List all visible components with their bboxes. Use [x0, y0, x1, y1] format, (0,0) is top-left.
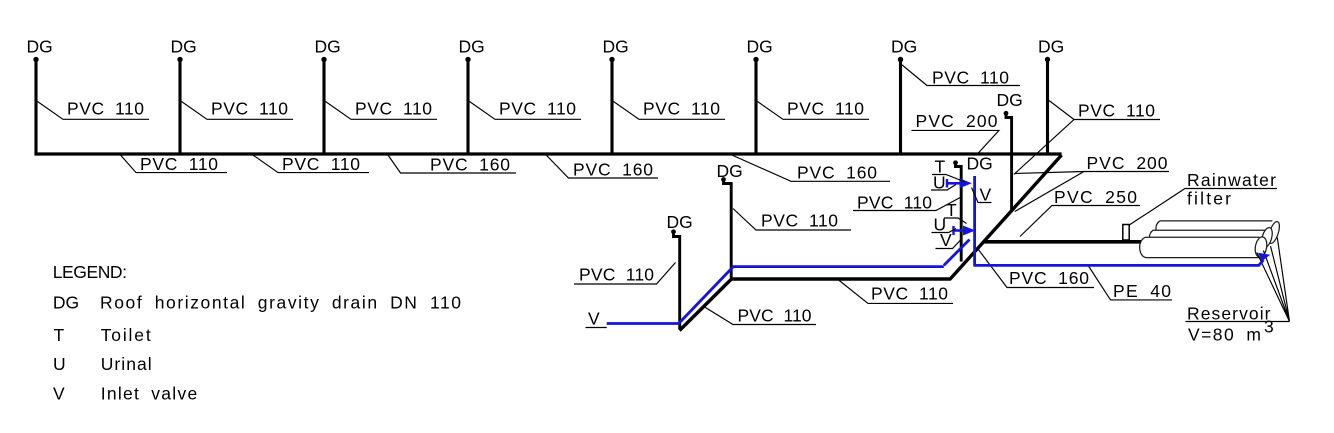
svg-text:Roof horizontal gravity drain: Roof horizontal gravity drain DN 110 — [100, 293, 461, 313]
node DG12 dot — [953, 160, 958, 165]
component reservoir end ellipse back — [1266, 220, 1281, 244]
leader V1 — [972, 188, 992, 203]
leader PVC 110 downpipe 7 — [902, 65, 1021, 86]
svg-text:PVC 110: PVC 110 — [857, 193, 932, 213]
leader PE 40 — [1089, 266, 1173, 300]
svg-text:PVC 110: PVC 110 — [140, 154, 218, 174]
wire main collector PVC pipe (roof level) — [34, 152, 1061, 155]
leader reservoir fan lines — [1186, 238, 1290, 322]
leader main-line segment label 1 — [121, 155, 228, 173]
svg-text:DG: DG — [717, 161, 743, 181]
wire downpipe DG7 — [899, 60, 902, 154]
wire sloped collector and lower branch main — [680, 155, 1062, 331]
leader main-line segment label 5 — [729, 154, 891, 182]
svg-text:PVC 110: PVC 110 — [738, 306, 812, 326]
svg-text:PVC 110: PVC 110 — [499, 99, 576, 119]
leader main-line segment label 4 — [546, 155, 658, 179]
wire downpipe DG12 (toilet/urinal stack) — [956, 163, 962, 262]
leader V inlet underline — [586, 327, 607, 329]
wire downpipe DG5 — [610, 60, 613, 154]
component reservoir end ellipse middle — [1260, 226, 1275, 248]
node DG10 dot — [721, 177, 726, 182]
svg-text:PVC 110: PVC 110 — [643, 99, 720, 119]
svg-text:PVC 250: PVC 250 — [1054, 187, 1137, 207]
svg-text:PVC 160: PVC 160 — [430, 155, 510, 175]
leader PVC 110 downpipe 6 — [758, 102, 870, 120]
svg-text:PVC 110: PVC 110 — [211, 99, 288, 119]
svg-text:filter: filter — [1187, 189, 1231, 209]
svg-text:DG: DG — [891, 37, 917, 57]
svg-text:U: U — [53, 354, 66, 374]
wire downpipe DG8 — [1046, 60, 1049, 154]
svg-text:PVC 110: PVC 110 — [1078, 101, 1155, 121]
svg-text:PVC 160: PVC 160 — [797, 163, 877, 183]
svg-text:PVC 110: PVC 110 — [282, 154, 360, 174]
svg-text:DG: DG — [603, 37, 629, 57]
node DG5 roof drain dot — [609, 57, 614, 62]
component reservoir end ellipse front — [1254, 236, 1269, 258]
svg-text:V: V — [53, 384, 65, 404]
svg-text:T: T — [946, 200, 957, 220]
svg-text:V: V — [980, 185, 992, 205]
svg-text:Toilet: Toilet — [101, 325, 151, 345]
leader PVC 110 downpipe 5 — [614, 102, 726, 120]
svg-text:DG: DG — [315, 37, 341, 57]
leader rainwater filter — [1129, 189, 1278, 226]
svg-text:PVC 110: PVC 110 — [932, 68, 1009, 88]
leader PVC 110 downpipe 1 — [38, 102, 150, 120]
svg-text:Rainwater: Rainwater — [1187, 170, 1276, 190]
node DG3 roof drain dot — [321, 57, 326, 62]
leader PVC 160 lower — [978, 249, 1094, 288]
svg-text:LEGEND:: LEGEND: — [53, 262, 127, 282]
svg-text:PVC 110: PVC 110 — [355, 99, 432, 119]
wire reservoir feed pipe PVC 250 — [984, 240, 1144, 244]
node DG7 roof drain dot — [898, 57, 903, 62]
component rainwater filter — [1123, 225, 1129, 241]
svg-text:PE 40: PE 40 — [1113, 281, 1171, 301]
wire downpipe DG3 — [322, 60, 325, 154]
svg-text:PVC 110: PVC 110 — [579, 265, 654, 285]
leader U1 — [931, 185, 956, 191]
wire downpipe DG1 — [34, 60, 37, 154]
node DG4 roof drain dot — [465, 57, 470, 62]
svg-text:3: 3 — [1264, 317, 1274, 337]
leader PVC 110 downpipe 2 — [182, 102, 294, 120]
wire downpipe DG4 — [466, 60, 469, 154]
leader main-line segment label 2 — [253, 155, 369, 173]
node DG1 roof drain dot — [33, 57, 38, 62]
svg-text:PVC 200: PVC 200 — [1087, 153, 1168, 173]
svg-text:PVC 200: PVC 200 — [916, 111, 998, 131]
svg-text:V: V — [940, 230, 952, 250]
svg-text:PVC 110: PVC 110 — [67, 99, 144, 119]
wire blue inlet from valve V — [607, 267, 944, 324]
svg-text:T: T — [54, 325, 65, 345]
component reservoir cylinder front — [1140, 237, 1260, 257]
leader PVC 200 lower (two arms) — [1015, 172, 1169, 212]
svg-text:DG: DG — [459, 37, 485, 57]
leader main-line segment label 3 — [388, 155, 516, 173]
svg-text:DG: DG — [747, 37, 773, 57]
svg-text:DG: DG — [1038, 37, 1064, 57]
svg-text:Reservoir: Reservoir — [1187, 304, 1271, 324]
component inlet valve arrow 1 — [947, 178, 972, 188]
wire blue stack vertical — [975, 176, 1264, 265]
node DG6 roof drain dot — [753, 57, 758, 62]
leader PVC 110 stack — [853, 197, 962, 211]
leader V2 — [936, 239, 962, 249]
wire blue riser to valve 2 — [944, 240, 970, 266]
svg-text:PVC 160: PVC 160 — [573, 160, 653, 180]
svg-text:PVC 110: PVC 110 — [871, 284, 948, 304]
svg-text:PVC 160: PVC 160 — [1009, 268, 1089, 288]
leader T2 — [944, 218, 967, 224]
wire downpipe DG11 — [674, 232, 680, 330]
leader U2 — [932, 229, 957, 233]
component reservoir cylinder middle — [1149, 230, 1267, 246]
leader PVC 110 downpipe 4 — [470, 102, 582, 120]
leader PVC 110 branch right — [733, 209, 851, 231]
svg-text:DG: DG — [967, 154, 993, 174]
svg-text:DG: DG — [171, 37, 197, 57]
component reservoir cylinder back — [1156, 221, 1272, 237]
svg-text:DG: DG — [27, 37, 53, 57]
svg-text:Urinal: Urinal — [101, 354, 152, 374]
leader PVC 250 — [1020, 206, 1140, 237]
svg-text:PVC 110: PVC 110 — [787, 99, 864, 119]
svg-text:DG: DG — [667, 212, 693, 232]
leader PVC 110 branch horizontal — [838, 280, 953, 304]
wire downpipe DG9 — [1006, 113, 1012, 210]
leader PVC 200 upper — [912, 130, 1000, 155]
node DG2 roof drain dot — [177, 57, 182, 62]
component blue arrow into reservoir — [1258, 253, 1270, 262]
component inlet valve arrow 2 — [954, 226, 976, 236]
node DG8 roof drain dot — [1045, 57, 1050, 62]
wire downpipe DG2 — [178, 60, 181, 154]
leader PVC 110 branch left — [574, 263, 676, 285]
svg-text:V: V — [588, 309, 600, 329]
svg-text:DG: DG — [997, 90, 1023, 110]
leader PVC 110 downpipe 3 — [326, 102, 438, 120]
svg-text:PVC 110: PVC 110 — [761, 211, 838, 231]
node DG9 dot — [1004, 111, 1009, 116]
leader PVC 110 branch bend — [703, 306, 816, 325]
wire downpipe DG10 — [724, 180, 732, 279]
wire downpipe DG6 — [754, 60, 757, 154]
leader T1 — [932, 175, 965, 183]
svg-text:DG: DG — [53, 293, 79, 313]
leader PVC 110 downpipe 8 (two arms) — [1014, 101, 1160, 175]
svg-text:Inlet valve: Inlet valve — [101, 384, 198, 404]
node DG11 dot — [671, 229, 676, 234]
svg-text:V=80 m: V=80 m — [1188, 325, 1261, 345]
